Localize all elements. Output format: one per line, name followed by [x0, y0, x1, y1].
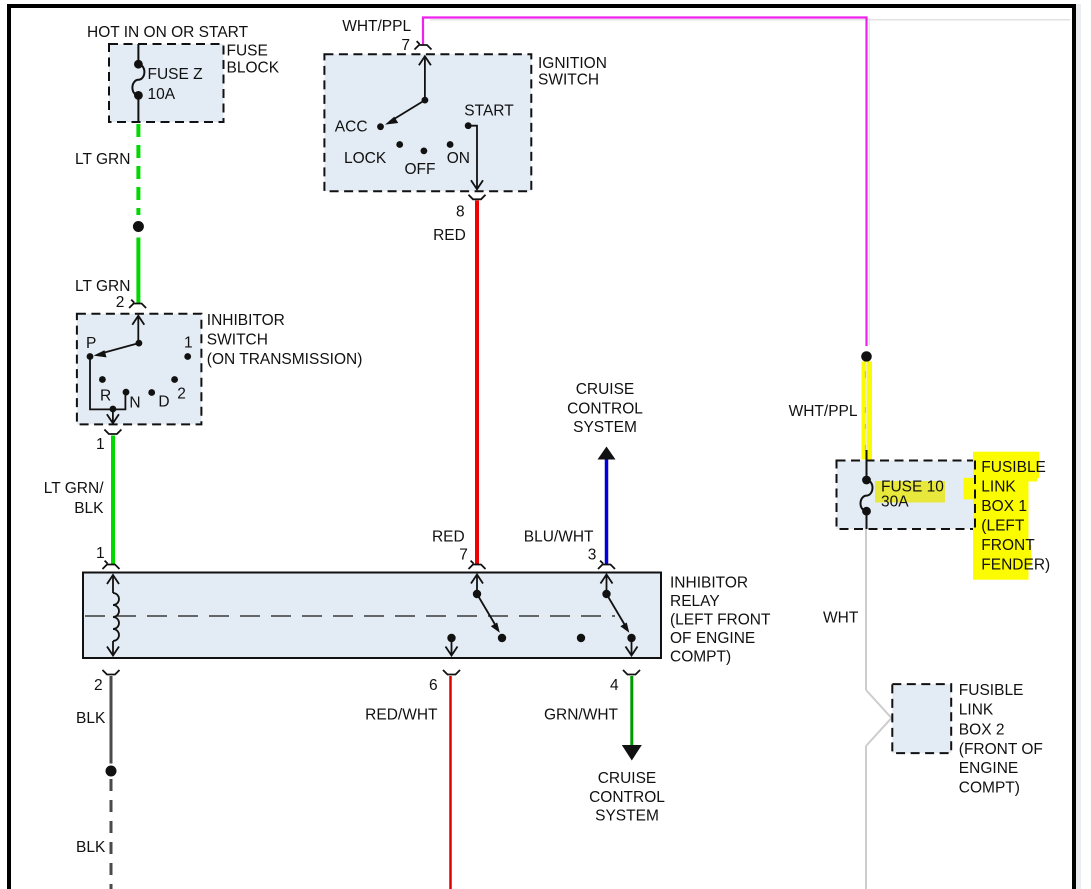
svg-text:CRUISE: CRUISE: [576, 381, 635, 398]
svg-text:WHT/PPL: WHT/PPL: [789, 403, 858, 420]
svg-text:WHT: WHT: [823, 610, 859, 627]
connector pin 2 relay: [103, 670, 120, 675]
connector pin 1 relay: [103, 561, 120, 569]
connector pin 6 relay: [443, 670, 460, 675]
svg-text:3: 3: [588, 547, 597, 564]
wire BLU/WHT: [605, 460, 609, 565]
wire LT GRN solid (splice to inhibitor switch pin 2): [136, 238, 140, 304]
svg-text:(LEFT: (LEFT: [981, 518, 1025, 535]
highlighter behind FUSE 10: [875, 481, 945, 503]
relay pin 6 lower dot: [447, 634, 455, 642]
contact R dot: [99, 376, 106, 383]
svg-text:SYSTEM: SYSTEM: [573, 419, 637, 436]
fuse 10 value label: [881, 479, 944, 511]
svg-text:P: P: [86, 335, 96, 352]
highlighter strip on WHT/PPL wire: [862, 362, 873, 460]
svg-text:BLOCK: BLOCK: [227, 60, 280, 77]
svg-text:1: 1: [184, 335, 193, 352]
relay pin 7 contact arm: [471, 575, 483, 595]
svg-text:6: 6: [429, 677, 438, 694]
connector pin 2 inhibitor switch: [129, 300, 146, 308]
border frame left: [7, 4, 11, 889]
svg-text:1: 1: [96, 545, 105, 562]
svg-text:LT GRN/: LT GRN/: [44, 480, 104, 497]
contact 1 dot: [184, 353, 191, 360]
output arrow to pin 1: [107, 409, 119, 423]
svg-text:LINK: LINK: [981, 479, 1016, 496]
scan ghost under WHT/PPL: [430, 19, 1070, 21]
wire START to pin 8: [468, 126, 483, 190]
svg-text:D: D: [158, 393, 169, 410]
svg-text:7: 7: [401, 37, 410, 54]
arrow to cruise control system (up): [598, 447, 616, 460]
svg-text:FUSE: FUSE: [227, 43, 268, 60]
ignition switch label: [538, 55, 607, 89]
contact P dot: [87, 353, 94, 360]
contact LOCK dot: [396, 141, 403, 148]
label LT GRN/BLK: [44, 480, 104, 517]
fuse block label: [227, 43, 280, 77]
svg-text:FUSIBLE: FUSIBLE: [981, 459, 1046, 476]
svg-text:(LEFT FRONT: (LEFT FRONT: [670, 612, 771, 629]
wire WHT upper: [865, 529, 867, 690]
svg-text:LT GRN: LT GRN: [75, 278, 130, 295]
fusible link box 2 label: [959, 682, 1043, 797]
wire WHT/PPL vertical: [865, 18, 867, 347]
contact ON dot: [447, 141, 454, 148]
svg-text:BLU/WHT: BLU/WHT: [524, 528, 594, 545]
wire LT GRN dashed (fuse block to splice): [136, 124, 140, 215]
splice dot WHT/PPL: [861, 351, 872, 362]
relay pin 3 dot: [602, 590, 610, 598]
svg-text:2: 2: [116, 294, 125, 311]
svg-text:7: 7: [459, 547, 468, 564]
inhibitor switch pivot dot: [136, 340, 143, 347]
svg-text:LINK: LINK: [959, 702, 994, 719]
fuse 10 (FUSE 10 30A): [861, 450, 873, 529]
svg-text:BOX 1: BOX 1: [981, 498, 1027, 515]
svg-text:4: 4: [610, 677, 619, 694]
label CRUISE CONTROL SYSTEM lower: [589, 770, 665, 825]
svg-text:ON: ON: [447, 150, 470, 167]
wire GRN/WHT: [630, 676, 633, 745]
svg-text:FENDER): FENDER): [981, 557, 1050, 574]
fuse Z value label: [148, 66, 203, 103]
label CRUISE CONTROL SYSTEM upper: [567, 381, 643, 436]
wire P to output junction: [90, 357, 125, 410]
contact D dot: [148, 389, 155, 396]
ignition pivot dot: [422, 97, 429, 104]
contact START dot: [465, 122, 472, 129]
wire WHT/PPL horizontal: [422, 16, 868, 18]
inhibitor switch wiper arm (pin2 to pivot): [132, 316, 144, 343]
svg-text:GRN/WHT: GRN/WHT: [544, 707, 619, 724]
inhibitor relay box: [83, 573, 661, 659]
relay pin 6 output arrow: [446, 638, 458, 656]
relay coil: [107, 575, 119, 656]
fuse block box: [109, 44, 224, 122]
svg-text:CONTROL: CONTROL: [567, 401, 643, 418]
connector pin 7 relay: [469, 561, 486, 569]
wire RED/WHT: [449, 676, 452, 889]
relay pin 4 dot: [627, 634, 635, 642]
splice dot LT GRN: [133, 221, 144, 232]
contact OFF dot: [421, 148, 428, 155]
relay pin 7 dot: [473, 590, 481, 598]
wire BLK dashed: [110, 779, 113, 889]
svg-text:RED/WHT: RED/WHT: [365, 707, 438, 724]
contact ACC dot: [377, 123, 384, 130]
svg-text:CRUISE: CRUISE: [598, 770, 657, 787]
svg-text:30A: 30A: [881, 494, 909, 511]
scan ghost right of WHT/PPL vertical: [868, 18, 870, 345]
svg-text:BLK: BLK: [74, 500, 104, 517]
wire WHT/PPL under highlighter: [865, 362, 867, 452]
svg-text:BLK: BLK: [76, 839, 106, 856]
highlighter strip pen marks: [865, 371, 866, 451]
svg-text:SYSTEM: SYSTEM: [595, 808, 659, 825]
svg-text:OF ENGINE: OF ENGINE: [670, 630, 755, 647]
svg-text:R: R: [100, 387, 111, 404]
output junction dot: [110, 406, 117, 413]
svg-text:8: 8: [456, 203, 465, 220]
connector pin 7 ignition switch: [415, 41, 432, 49]
svg-text:COMPT): COMPT): [670, 649, 731, 666]
svg-text:ENGINE: ENGINE: [959, 760, 1018, 777]
svg-text:CONTROL: CONTROL: [589, 789, 665, 806]
contact N dot: [123, 389, 130, 396]
svg-text:2: 2: [177, 385, 186, 402]
ignition wiper arrow to ACC: [385, 100, 425, 125]
connector pin 3 relay: [598, 561, 615, 569]
svg-text:FUSE Z: FUSE Z: [148, 66, 203, 83]
border frame right: [1072, 4, 1076, 889]
relay spare contact dot: [577, 634, 585, 642]
relay switch arm 3-4: [607, 594, 630, 633]
connector pin 8 ignition switch: [469, 195, 486, 200]
svg-text:(FRONT OF: (FRONT OF: [959, 741, 1043, 758]
highlighter behind fusible link box 1 label: [963, 452, 1039, 580]
svg-text:WHT/PPL: WHT/PPL: [342, 18, 411, 35]
ignition wiper arm (pin7 to pivot): [419, 56, 431, 100]
fuse Z (FUSE Z 10A): [132, 44, 144, 121]
svg-text:RELAY: RELAY: [670, 593, 720, 610]
page edge halftone right: [1076, 4, 1081, 889]
svg-text:(ON TRANSMISSION): (ON TRANSMISSION): [207, 351, 363, 368]
svg-text:10A: 10A: [148, 86, 176, 103]
connector pin 4 relay: [623, 670, 640, 675]
svg-text:FRONT: FRONT: [981, 537, 1035, 554]
fusible link box 1: [837, 461, 976, 530]
wire RED (ignition to relay pin 7): [475, 201, 479, 565]
svg-text:ACC: ACC: [335, 118, 368, 135]
svg-text:SWITCH: SWITCH: [207, 332, 268, 349]
svg-text:FUSIBLE: FUSIBLE: [959, 682, 1024, 699]
svg-text:RED: RED: [433, 227, 466, 244]
svg-text:IGNITION: IGNITION: [538, 55, 607, 72]
wire BLK solid: [110, 676, 113, 764]
ignition switch box: [324, 54, 531, 191]
svg-text:LOCK: LOCK: [344, 150, 387, 167]
svg-text:1: 1: [96, 436, 105, 453]
svg-text:HOT IN ON OR START: HOT IN ON OR START: [87, 24, 249, 41]
fusible link box 1 right edge over highlighter: [974, 461, 976, 530]
relay switch arm 7-6: [477, 594, 500, 633]
svg-text:SWITCH: SWITCH: [538, 72, 599, 89]
border frame top: [7, 4, 1076, 8]
svg-text:BLK: BLK: [76, 710, 106, 727]
svg-text:INHIBITOR: INHIBITOR: [670, 575, 748, 592]
splice dot BLK: [106, 766, 117, 777]
svg-text:2: 2: [94, 677, 103, 694]
inhibitor switch box: [77, 314, 201, 425]
svg-text:N: N: [129, 395, 140, 412]
arrow to cruise control system (down): [622, 745, 642, 761]
relay pin 3 contact arm: [601, 575, 613, 595]
inhibitor switch wiper arrow to P: [94, 343, 139, 357]
relay internal dashed centerline: [85, 615, 615, 617]
svg-text:COMPT): COMPT): [959, 780, 1020, 797]
svg-text:INHIBITOR: INHIBITOR: [207, 312, 285, 329]
svg-text:START: START: [464, 103, 514, 120]
ignition switch magenta riser: [422, 18, 424, 45]
fusible link box 2: [892, 684, 951, 753]
svg-text:RED: RED: [432, 528, 465, 545]
svg-text:BOX 2: BOX 2: [959, 721, 1005, 738]
wire WHT lower: [865, 746, 867, 889]
wire WHT chevron at fusible link box 2: [866, 690, 892, 746]
svg-text:OFF: OFF: [405, 161, 436, 178]
relay pin 6 dot: [498, 634, 506, 642]
inhibitor relay label: [670, 575, 771, 666]
contact 2 dot: [171, 376, 178, 383]
svg-text:LT GRN: LT GRN: [75, 151, 130, 168]
fusible link box 1 label: [981, 459, 1050, 574]
relay pin 4 output arrow: [626, 638, 638, 656]
inhibitor switch label: [207, 312, 363, 368]
connector pin 1 inhibitor switch: [104, 430, 121, 435]
wire LT GRN/BLK (inhibitor switch to relay pin 1): [111, 436, 115, 565]
